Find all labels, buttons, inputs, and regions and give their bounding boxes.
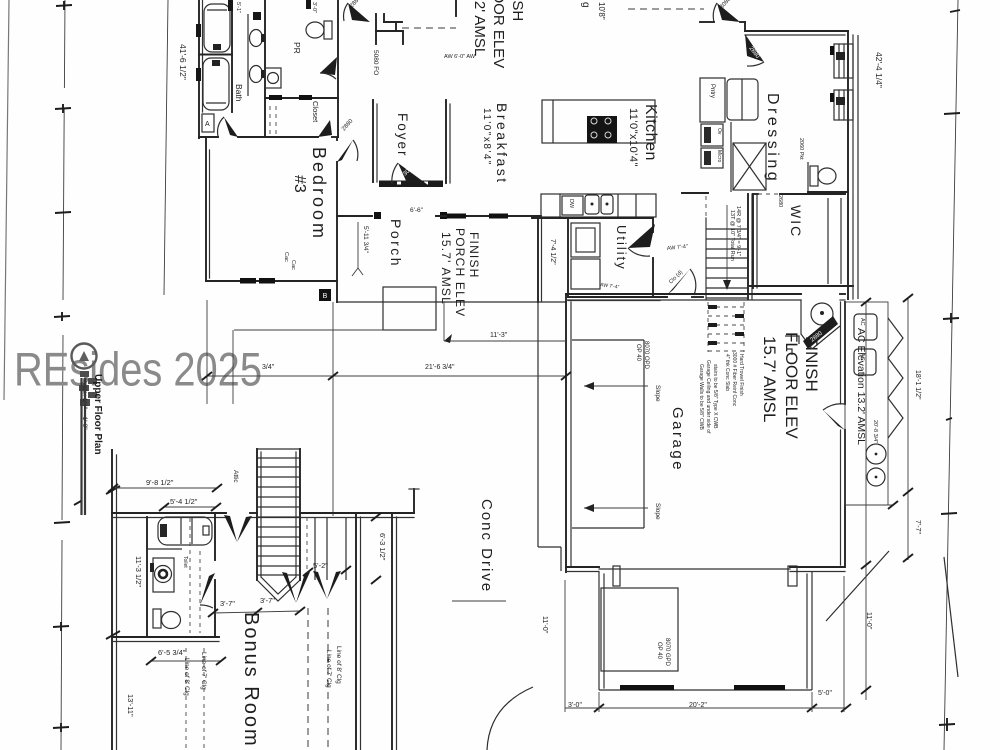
- bonus toilet: [153, 609, 181, 629]
- svg-text:FINISH: FINISH: [467, 232, 481, 279]
- B marker: [319, 289, 331, 301]
- svg-text:Slope: Slope: [654, 385, 661, 402]
- breakfast front wall: [436, 214, 541, 219]
- svg-text:3000 # Fiber Reinf Conc: 3000 # Fiber Reinf Conc: [731, 352, 737, 407]
- kitchen dims label: [627, 108, 639, 167]
- clg labels left: [183, 652, 207, 696]
- front door swing: [392, 163, 428, 185]
- right dim line 928: [903, 294, 913, 562]
- svg-text:Bedroom: Bedroom: [309, 147, 329, 241]
- svg-text:6'-6": 6'-6": [410, 207, 424, 214]
- utility right wall: [652, 218, 654, 297]
- PR right wall: [337, 0, 339, 137]
- bath vanity wall: [264, 0, 266, 137]
- garage notes: [698, 360, 718, 434]
- garage slab lines: [572, 340, 644, 528]
- clg labels right: [325, 646, 342, 688]
- svg-text:DW: DW: [568, 199, 574, 209]
- garage bottom wall: [566, 567, 845, 572]
- svg-text:Garage: Garage: [669, 407, 686, 472]
- finish floor elev labels: [760, 332, 821, 439]
- svg-text:Closet: Closet: [311, 101, 320, 123]
- stairs arrow: [723, 205, 731, 290]
- svg-text:Cac: Cac: [283, 252, 289, 262]
- Porch label: [388, 219, 404, 268]
- PR closet wall: [265, 95, 338, 100]
- garage door label: [656, 638, 670, 667]
- svg-text:OP 40: OP 40: [656, 642, 662, 660]
- svg-text:5080 FO: 5080 FO: [372, 50, 379, 75]
- svg-text:Ov: Ov: [716, 128, 722, 135]
- stair note: [729, 206, 741, 261]
- landing door V1: [282, 572, 310, 603]
- svg-text:PORCH ELEV: PORCH ELEV: [453, 228, 467, 317]
- svg-text:Hard Trowel Finish: Hard Trowel Finish: [738, 354, 744, 396]
- walk boundary: [538, 302, 561, 571]
- bonus top corner: [409, 489, 419, 513]
- svg-text:6'-5 3/4": 6'-5 3/4": [158, 648, 186, 657]
- WIC labels: [777, 195, 804, 238]
- Bedroom number label: [291, 175, 308, 193]
- svg-text:11'0"x8'4": 11'0"x8'4": [481, 108, 492, 166]
- Attic label: [232, 470, 239, 483]
- water heater: [801, 300, 833, 349]
- svg-text:A: A: [205, 121, 210, 128]
- svg-text:20'-2": 20'-2": [689, 702, 707, 709]
- Bedroom label: [309, 147, 329, 241]
- watermark REsides 2025: [14, 343, 262, 396]
- AC pad: [845, 302, 903, 505]
- svg-text:PR: PR: [292, 42, 302, 54]
- dim 5-0: [818, 690, 832, 697]
- bonus bath right wall: [214, 513, 216, 637]
- svg-text:Toilet: Toilet: [182, 556, 188, 568]
- left inner dim line: [164, 0, 168, 295]
- dim 3-0: [568, 702, 582, 709]
- AW 7-4 label: [600, 282, 620, 291]
- svg-text:13T @ 10" Total Run: 13T @ 10" Total Run: [729, 210, 735, 261]
- Utility label: [614, 225, 629, 271]
- oven micro cabinets: [701, 124, 723, 168]
- garage right wall: [841, 302, 846, 565]
- cabinets column wall: [730, 122, 732, 192]
- Kitchen label: [642, 104, 659, 161]
- slope arrow 2: [584, 503, 661, 520]
- WIC bottom wall: [750, 285, 853, 287]
- toilet partition: [808, 162, 848, 192]
- vent brackets: [785, 336, 799, 355]
- svg-text:3'-7": 3'-7": [220, 599, 235, 608]
- bonus bath door: [200, 573, 215, 608]
- clg dashed right pair: [308, 608, 328, 750]
- svg-text:g: g: [580, 2, 591, 8]
- svg-text:21'-6 3/4": 21'-6 3/4": [425, 364, 455, 371]
- pantry cabinets: [700, 78, 725, 122]
- svg-text:5'-11 3/4": 5'-11 3/4": [362, 226, 369, 254]
- svg-text:11'0"x10'4": 11'0"x10'4": [627, 108, 639, 167]
- svg-text:5'-0": 5'-0": [818, 690, 832, 697]
- conc drive label: [478, 499, 495, 593]
- left dim tick marks: [53, 1, 72, 732]
- stairs up right rail: [748, 194, 752, 299]
- bonus stairs chevron: [257, 577, 300, 601]
- top edge wall marks: [228, 0, 311, 20]
- svg-text:42'-4 1/4": 42'-4 1/4": [874, 52, 884, 88]
- svg-text:FINISH: FINISH: [509, 0, 526, 21]
- svg-text:stairs to be 5/8" Type X CWB: stairs to be 5/8" Type X CWB: [712, 364, 718, 429]
- svg-text:Line of 7' Clg: Line of 7' Clg: [200, 652, 207, 690]
- front door band: [379, 181, 443, 188]
- svg-text:10'8": 10'8": [597, 2, 606, 20]
- bonus tub: [158, 517, 212, 545]
- Closet label: [311, 101, 320, 123]
- dishwasher: [562, 196, 583, 215]
- svg-text:AC Elevation 13.2' AMSL: AC Elevation 13.2' AMSL: [855, 328, 867, 445]
- svg-text:6'-3 1/2": 6'-3 1/2": [378, 533, 387, 561]
- tub 2: [203, 58, 229, 110]
- driveway curve: [487, 687, 533, 750]
- bedroom3 bottom wall: [206, 278, 337, 284]
- closet hall door: [667, 269, 696, 295]
- title scale note: [81, 378, 88, 430]
- dim 9-8: [108, 478, 222, 492]
- dim 5-4: [159, 497, 221, 511]
- stairs up left rail: [705, 196, 707, 299]
- dim line 21-6: [202, 364, 571, 380]
- utility top wall: [532, 217, 653, 219]
- svg-text:11'-0": 11'-0": [541, 616, 548, 634]
- dim 3-7 pair: [208, 596, 305, 617]
- closet shelves: [270, 106, 276, 134]
- svg-text:3'-0": 3'-0": [311, 2, 317, 13]
- bath door: [218, 117, 238, 137]
- svg-text:AC: AC: [859, 318, 865, 326]
- svg-text:2060 Pkt: 2060 Pkt: [798, 138, 804, 160]
- svg-text:Cac: Cac: [290, 260, 296, 270]
- svg-text:B: B: [323, 293, 328, 300]
- bonus sink: [150, 558, 174, 592]
- garage door piers: [613, 566, 797, 586]
- watermark logo circle: [72, 344, 97, 369]
- WIC left wall: [753, 194, 757, 288]
- dining finish floor elev (cropped at top): [471, 0, 526, 68]
- svg-text:OP 40: OP 40: [635, 344, 641, 362]
- stairs lower dark marks: [708, 305, 744, 345]
- kitchen sink: [585, 195, 613, 214]
- diagonal leader lines right: [826, 551, 958, 677]
- svg-text:9'-8 1/2": 9'-8 1/2": [146, 478, 174, 487]
- AW labels: [444, 54, 476, 60]
- right dimension line: [944, 0, 958, 750]
- bath block left wall: [199, 0, 203, 138]
- PR door: [320, 57, 337, 79]
- bonus bath bottom wall: [112, 637, 219, 642]
- svg-text:FLOOR ELEV: FLOOR ELEV: [490, 0, 507, 68]
- AC condensers: [866, 444, 886, 486]
- svg-text:Bath: Bath: [234, 84, 244, 102]
- Cac labels: [283, 252, 296, 270]
- bath tub divider wall: [199, 54, 232, 56]
- svg-text:Foyer: Foyer: [395, 113, 410, 158]
- pad dim: [845, 420, 898, 509]
- svg-text:Line of 8' Clg: Line of 8' Clg: [335, 646, 342, 684]
- svg-text:Bonus Room: Bonus Room: [240, 612, 262, 748]
- Foyer label: [395, 113, 410, 158]
- svg-text:Breakfast: Breakfast: [494, 103, 510, 185]
- dressing entry door: [713, 0, 740, 22]
- svg-text:Micro: Micro: [716, 150, 722, 162]
- dim 6-6: [410, 207, 424, 214]
- utility left wall: [567, 218, 569, 297]
- finish porch elev labels: [439, 228, 481, 317]
- foyer right wall: [446, 100, 450, 183]
- Dressing label: [764, 93, 781, 184]
- porch dim verticals: [207, 300, 444, 516]
- left dim text 41-6: [178, 44, 188, 80]
- garage left wall: [566, 294, 571, 572]
- dressing vanity 2: [830, 90, 853, 120]
- svg-text:7'-4 1/2": 7'-4 1/2": [549, 239, 556, 265]
- WIC top wall: [753, 193, 845, 195]
- vanity counter: [247, 14, 249, 96]
- bonus stairs treads: [257, 458, 300, 575]
- pocket door label: [798, 138, 804, 160]
- svg-text:8070 OPD: 8070 OPD: [643, 341, 649, 370]
- svg-text:Line of 8' Clg: Line of 8' Clg: [183, 658, 190, 696]
- garage top door: [803, 316, 840, 349]
- svg-text:3'-7": 3'-7": [260, 596, 275, 605]
- svg-text:7'-7": 7'-7": [914, 520, 921, 534]
- svg-text:Conc Drive: Conc Drive: [478, 499, 495, 593]
- foyer nook walls: [376, 14, 403, 44]
- bonus top wall: [112, 513, 414, 518]
- bath inner wall: [231, 0, 233, 112]
- bedroom3 left wall: [206, 139, 210, 281]
- apron bottom edge: [599, 689, 812, 691]
- dim 6-5: [146, 648, 226, 665]
- closet bottom wall: [265, 136, 338, 138]
- 5080 FO label: [372, 50, 379, 75]
- register box A: [202, 114, 214, 132]
- dim 5-2: [303, 561, 351, 576]
- svg-text:Garage Walls to be 5/8" CWB: Garage Walls to be 5/8" CWB: [698, 364, 704, 430]
- svg-text:WIC: WIC: [788, 205, 804, 238]
- porch right wall: [538, 217, 542, 302]
- dim 7-7: [914, 520, 921, 534]
- dim 7-4 porch: [549, 239, 556, 265]
- svg-text:Porch: Porch: [388, 219, 404, 268]
- apron left edge: [599, 572, 604, 690]
- PR label: [292, 42, 302, 54]
- svg-text:18'-1 1/2": 18'-1 1/2": [914, 370, 921, 400]
- closet door: [318, 120, 332, 137]
- svg-text:Garage Ceiling and under side: Garage Ceiling and under side of: [705, 360, 711, 434]
- dining partial labels: [580, 2, 606, 20]
- porch dim line 330: [234, 329, 436, 331]
- AC box: [854, 314, 877, 375]
- dim 20-2: [689, 702, 707, 709]
- bedroom3 door: [337, 118, 358, 162]
- stairs top wall: [682, 192, 708, 194]
- dim 11-3h: [134, 556, 143, 587]
- dressing entry walls: [700, 22, 745, 31]
- bedroom3 right wall: [336, 138, 338, 302]
- left dimension line: [61, 0, 65, 750]
- front entry walls: [337, 212, 447, 219]
- title bar: [74, 378, 85, 515]
- Garage label: [669, 407, 686, 472]
- svg-text:41'-6 1/2": 41'-6 1/2": [178, 44, 188, 80]
- dining opening dashed: [396, 0, 456, 30]
- svg-text:5'-1": 5'-1": [235, 2, 241, 13]
- washer: [571, 223, 600, 257]
- svg-text:11'-3": 11'-3": [490, 332, 508, 339]
- bonus left wall: [112, 450, 117, 750]
- slope arrow 1: [584, 382, 661, 402]
- top edge small dims: [235, 2, 317, 13]
- fridge: [727, 79, 758, 120]
- svg-text:Line of 7' Clg: Line of 7' Clg: [325, 650, 332, 688]
- dining dashed right: [628, 8, 704, 10]
- breakfast dims label: [481, 108, 492, 166]
- breakfast nook wall: [384, 14, 402, 22]
- bath block bottom wall: [199, 136, 265, 138]
- PR toilet: [306, 21, 332, 39]
- dim 11-0 right: [865, 612, 872, 630]
- dryer: [571, 259, 600, 289]
- bottom dim line: [565, 704, 851, 712]
- conc drive leader: [452, 600, 506, 602]
- 8070 opening label: [635, 341, 649, 370]
- bonus bath divider: [147, 548, 182, 550]
- right dim text 42-4: [874, 52, 884, 88]
- dim line 11-3: [444, 332, 566, 343]
- left page edge line: [4, 0, 9, 400]
- svg-text:3/4": 3/4": [262, 364, 275, 371]
- svg-text:15.2' AMSL: 15.2' AMSL: [471, 0, 488, 56]
- svg-text:Attic: Attic: [232, 470, 239, 483]
- garage top wall: [566, 294, 845, 300]
- garage side door: [823, 404, 845, 435]
- shower X box: [733, 143, 766, 190]
- breakfast label: [494, 103, 510, 185]
- svg-text:13'-11": 13'-11": [126, 694, 135, 717]
- svg-text:#3: #3: [291, 175, 308, 193]
- svg-text:Kitchen: Kitchen: [642, 104, 659, 161]
- stairs up treads: [706, 229, 748, 298]
- right bay line: [857, 35, 859, 299]
- porch slab edge: [337, 301, 566, 303]
- svg-text:3'-0": 3'-0": [568, 702, 582, 709]
- svg-text:4" thk Conc Slab: 4" thk Conc Slab: [724, 354, 730, 391]
- bath wall window marks: [196, 24, 201, 81]
- foyer top door: [344, 0, 370, 22]
- Toilet label: [182, 556, 188, 568]
- dim 18-1: [914, 370, 921, 400]
- svg-text:5'-4 1/2": 5'-4 1/2": [170, 497, 198, 506]
- apron inner rect: [601, 588, 678, 671]
- svg-text:Pntry: Pntry: [709, 84, 715, 98]
- kitchen island: [542, 100, 655, 143]
- dressing top wall: [745, 31, 848, 35]
- clg dashed left pair: [186, 648, 204, 750]
- stairs lower dashed flight: [708, 302, 744, 352]
- kitchen counter: [541, 194, 656, 217]
- svg-text:Slope: Slope: [654, 503, 661, 520]
- svg-text:15.7' AMSL: 15.7' AMSL: [439, 232, 453, 305]
- bonus bath left wall: [146, 517, 148, 637]
- WIC closet rods: [828, 198, 841, 284]
- svg-text:Utility: Utility: [614, 225, 629, 271]
- tub 1: [204, 4, 230, 52]
- foyer right wall lower: [373, 100, 377, 182]
- svg-text:FLOOR ELEV: FLOOR ELEV: [782, 332, 801, 439]
- utility hall door: [628, 224, 655, 256]
- slab notes: [724, 352, 744, 407]
- svg-text:2680: 2680: [777, 195, 783, 207]
- attic door V: [224, 515, 252, 542]
- dressing toilet: [810, 166, 836, 186]
- dim 11-0 left: [541, 616, 548, 634]
- sink 2: [250, 66, 266, 83]
- utility bottom wall: [568, 297, 703, 301]
- watermark logo post: [79, 371, 97, 406]
- Bonus Room label: [240, 612, 262, 748]
- landing rails: [307, 517, 346, 580]
- house right wall: [848, 31, 853, 299]
- bonus stairs rails: [257, 449, 300, 580]
- svg-text:15.7' AMSL: 15.7' AMSL: [760, 336, 779, 422]
- Bath label: [234, 84, 244, 102]
- bonus left wall ticks: [106, 486, 120, 639]
- svg-text:REsides 2025: REsides 2025: [14, 343, 262, 396]
- svg-text:5'-2": 5'-2": [313, 561, 328, 570]
- AC elevation label: [855, 328, 867, 445]
- PR sink: [265, 68, 281, 88]
- bottom dim ext lines: [565, 576, 844, 712]
- dressing door2: [745, 34, 764, 66]
- AW 4-4 label: [667, 244, 689, 252]
- dim 6-3: [371, 513, 387, 584]
- sink 1: [250, 30, 266, 47]
- dim 5-11: [352, 222, 369, 276]
- svg-text:Upper Floor Plan: Upper Floor Plan: [92, 374, 103, 455]
- porch step: [383, 287, 436, 330]
- bonus right wall A: [356, 515, 361, 750]
- bonus right wall B: [392, 515, 397, 750]
- right dim ticks: [939, 10, 960, 731]
- dim 13-11: [126, 694, 135, 717]
- Upper Floor Plan title: [92, 374, 103, 455]
- dressing vanity 1: [830, 44, 853, 78]
- bath rod dashes: [190, 518, 200, 633]
- svg-text:11'-3 1/2": 11'-3 1/2": [134, 556, 143, 587]
- garage door strips: [620, 685, 785, 690]
- right dim line 866: [861, 298, 871, 700]
- svg-text:20'-8 3/4": 20'-8 3/4": [872, 420, 878, 443]
- apron right edge: [807, 572, 812, 690]
- svg-text:8070 GPD: 8070 GPD: [664, 638, 670, 667]
- landing door V2: [313, 571, 341, 599]
- cooktop: [587, 116, 617, 143]
